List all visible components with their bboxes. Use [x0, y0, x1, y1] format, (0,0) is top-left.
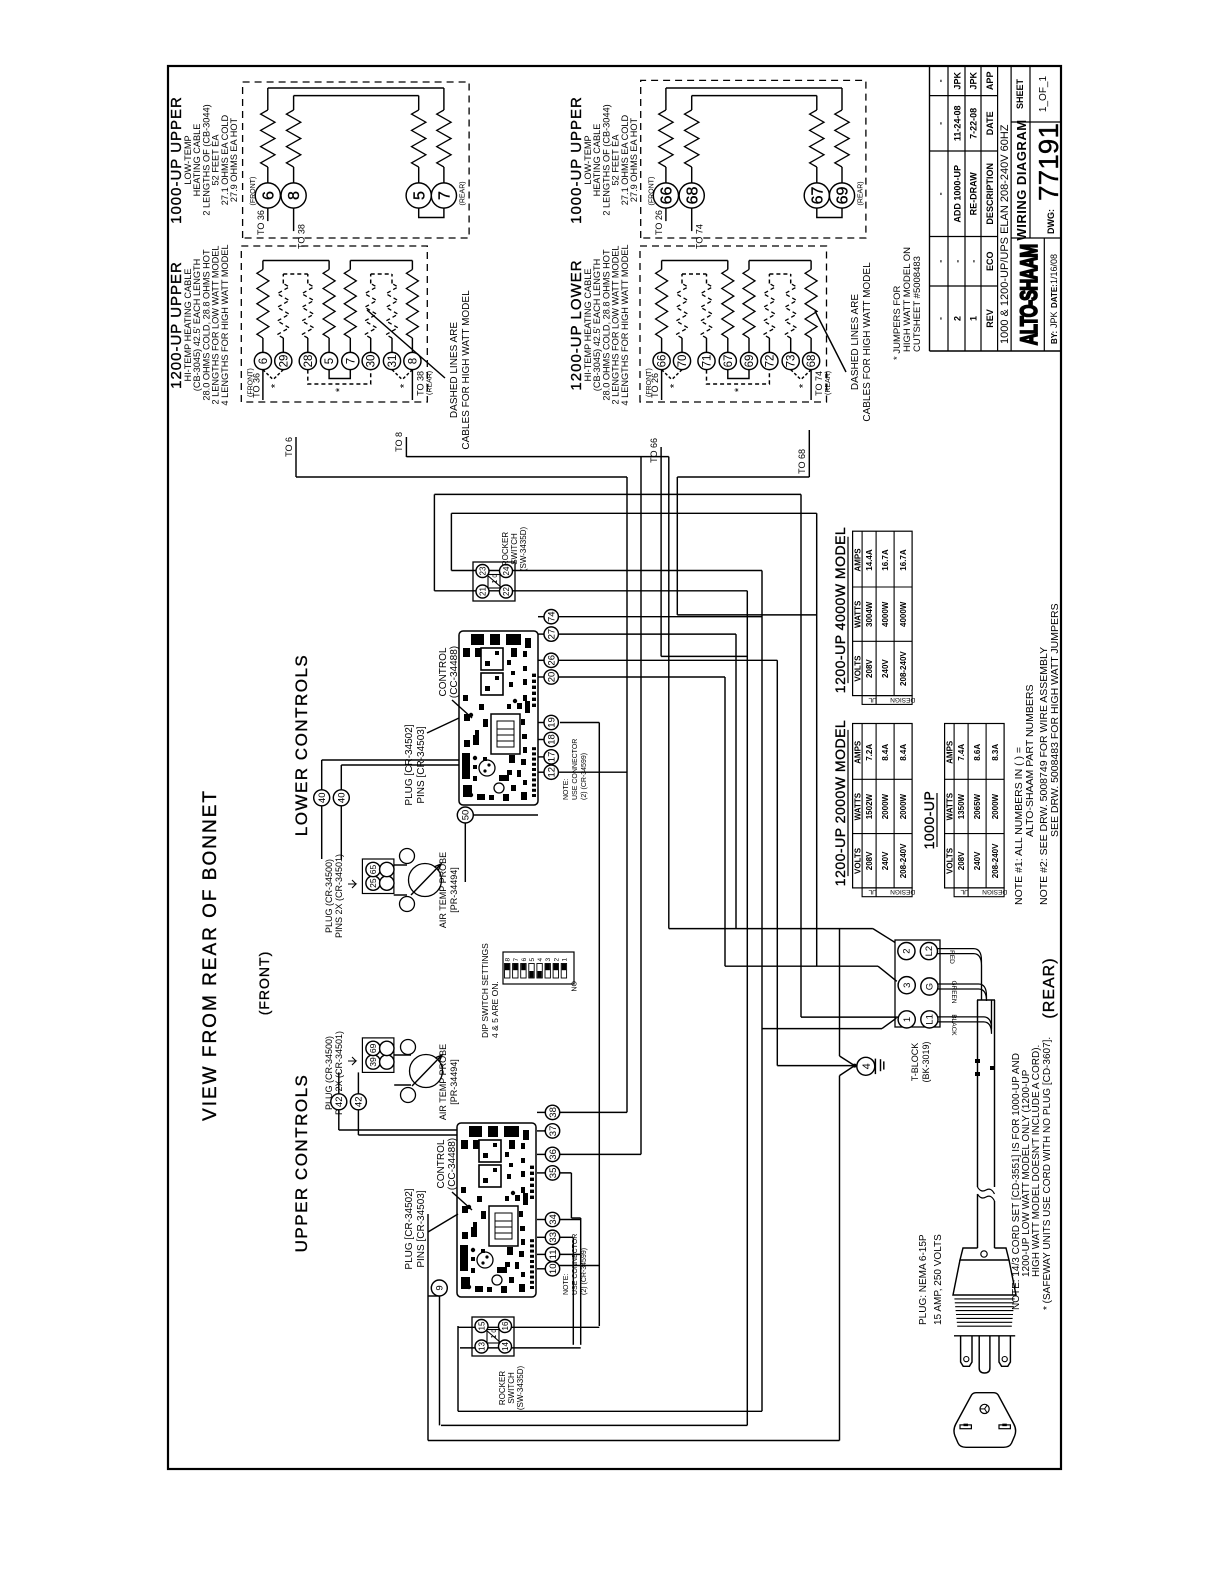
svg-text:WIRING DIAGRAM: WIRING DIAGRAM	[1014, 119, 1029, 240]
svg-text:208-240V: 208-240V	[899, 651, 908, 686]
svg-text:1: 1	[969, 316, 979, 321]
svg-text:5: 5	[529, 958, 536, 962]
svg-text:AMPS: AMPS	[853, 548, 862, 572]
svg-text:22: 22	[502, 587, 511, 596]
svg-text:240V: 240V	[973, 851, 982, 870]
svg-text:(REAR): (REAR)	[858, 181, 865, 205]
svg-text:8.3A: 8.3A	[991, 744, 1000, 761]
svg-text:2: 2	[553, 958, 560, 962]
svg-text:CONTROL: CONTROL	[436, 1139, 447, 1188]
svg-text:4000W: 4000W	[899, 601, 908, 627]
svg-text:4 LENGTHS FOR HIGH WATT MODEL: 4 LENGTHS FOR HIGH WATT MODEL	[220, 244, 230, 405]
svg-text:16: 16	[501, 1321, 510, 1330]
svg-text:TO 68: TO 68	[797, 449, 807, 474]
svg-text:67: 67	[723, 355, 735, 368]
svg-text:2000W: 2000W	[899, 793, 908, 819]
svg-text:T-BLOCK: T-BLOCK	[910, 1043, 920, 1082]
svg-text:JPK: JPK	[1049, 311, 1059, 328]
svg-text:68: 68	[806, 355, 818, 368]
svg-text:SHEET: SHEET	[1015, 78, 1025, 109]
svg-text:-: -	[936, 122, 946, 125]
svg-text:(FRONT): (FRONT)	[646, 368, 653, 397]
svg-text:*: *	[270, 383, 282, 388]
svg-text:3: 3	[545, 958, 552, 962]
svg-text:ROCKER: ROCKER	[501, 532, 510, 566]
svg-text:70: 70	[677, 355, 689, 368]
svg-text:31: 31	[387, 355, 399, 368]
svg-text:CONTROL: CONTROL	[438, 647, 449, 696]
svg-text:* (SAFEWAY UNITS USE CORD WITH: * (SAFEWAY UNITS USE CORD WITH NO PLUG […	[1042, 1037, 1053, 1310]
svg-text:*: *	[733, 387, 745, 392]
svg-text:USE CONNECTOR: USE CONNECTOR	[572, 739, 579, 800]
svg-text:17: 17	[547, 752, 558, 763]
svg-text:208-240V: 208-240V	[899, 843, 908, 878]
svg-text:TO 26: TO 26	[654, 210, 664, 235]
svg-text:240V: 240V	[881, 851, 890, 870]
svg-text:DESCRIPTION: DESCRIPTION	[985, 163, 995, 225]
svg-text:21: 21	[478, 587, 487, 596]
svg-text:68: 68	[684, 187, 701, 205]
svg-text:13: 13	[477, 1342, 486, 1351]
svg-text:2065W: 2065W	[973, 793, 982, 819]
svg-text:PLUG [CR-34502]: PLUG [CR-34502]	[404, 724, 415, 805]
svg-text:7: 7	[513, 958, 520, 962]
svg-text:8: 8	[407, 358, 419, 364]
svg-text:CABLES FOR HIGH WATT MODEL: CABLES FOR HIGH WATT MODEL	[461, 290, 472, 450]
svg-text:(FRONT): (FRONT)	[648, 177, 655, 206]
svg-text:20: 20	[547, 672, 558, 683]
svg-text:2000W: 2000W	[991, 793, 1000, 819]
svg-text:VIEW FROM REAR OF BONNET: VIEW FROM REAR OF BONNET	[200, 789, 221, 1121]
svg-text:40: 40	[317, 793, 328, 804]
svg-text:14: 14	[501, 1342, 510, 1351]
svg-text:[PR-34494]: [PR-34494]	[449, 1059, 459, 1105]
svg-text:G: G	[925, 983, 936, 990]
svg-text:208-240V: 208-240V	[991, 843, 1000, 878]
svg-text:(REAR): (REAR)	[825, 371, 832, 395]
svg-text:DESIGN: DESIGN	[982, 888, 1007, 895]
svg-text:TO 74: TO 74	[695, 224, 705, 249]
svg-text:TO 66: TO 66	[649, 438, 659, 463]
svg-text:6: 6	[521, 958, 528, 962]
svg-text:L1: L1	[925, 1014, 936, 1025]
svg-text:(FRONT): (FRONT)	[256, 951, 272, 1016]
svg-text:5: 5	[411, 191, 428, 200]
svg-text:DESIGN: DESIGN	[890, 696, 915, 703]
svg-text:DATE:: DATE:	[1050, 284, 1059, 308]
svg-text:PINS [CR-34503]: PINS [CR-34503]	[416, 726, 427, 803]
svg-text:14.4A: 14.4A	[865, 549, 874, 571]
svg-text:SWITCH: SWITCH	[510, 533, 519, 565]
svg-text:66: 66	[657, 355, 669, 368]
svg-text:UL: UL	[868, 696, 877, 703]
svg-text:208V: 208V	[865, 851, 874, 870]
svg-text:77191: 77191	[1033, 123, 1064, 201]
svg-text:(CC-34488): (CC-34488)	[447, 1138, 458, 1190]
svg-text:PLUG: NEMA 6-15P: PLUG: NEMA 6-15P	[918, 1234, 929, 1325]
svg-text:71: 71	[702, 355, 714, 368]
svg-text:(FRONT): (FRONT)	[250, 177, 257, 206]
svg-text:4: 4	[537, 958, 544, 962]
svg-text:30: 30	[366, 355, 378, 368]
svg-text:27.9 OHMS EA HOT: 27.9 OHMS EA HOT	[229, 117, 239, 202]
svg-text:UPPER CONTROLS: UPPER CONTROLS	[292, 1074, 311, 1253]
svg-text:72: 72	[764, 355, 776, 368]
svg-text:PLUG [CR-34502]: PLUG [CR-34502]	[404, 1188, 415, 1269]
svg-text:ECO: ECO	[985, 251, 995, 271]
svg-text:SWITCH: SWITCH	[507, 1372, 516, 1404]
svg-text:NOTE:: NOTE:	[563, 1274, 570, 1295]
svg-text:BLACK: BLACK	[950, 1014, 957, 1036]
svg-text:208V: 208V	[957, 851, 966, 870]
svg-text:-: -	[936, 260, 946, 263]
svg-text:*: *	[668, 383, 680, 388]
svg-text:240V: 240V	[881, 659, 890, 678]
svg-text:ROCKER: ROCKER	[498, 1371, 507, 1405]
svg-text:73: 73	[786, 355, 798, 368]
svg-text:8.6A: 8.6A	[973, 744, 982, 761]
svg-text:8: 8	[505, 958, 512, 962]
svg-text:TO 8: TO 8	[394, 432, 404, 452]
svg-text:1502W: 1502W	[865, 793, 874, 819]
svg-text:8: 8	[286, 191, 303, 200]
svg-text:28: 28	[303, 355, 315, 368]
svg-text:TO 38: TO 38	[415, 371, 425, 396]
svg-text:NOTE:: NOTE:	[563, 779, 570, 800]
svg-text:42: 42	[334, 1097, 345, 1108]
svg-text:24: 24	[502, 566, 511, 575]
svg-text:*: *	[334, 387, 346, 392]
svg-text:74: 74	[547, 611, 558, 622]
svg-text:1000-UP: 1000-UP	[921, 791, 937, 850]
svg-text:66: 66	[659, 187, 676, 205]
svg-text:8.4A: 8.4A	[881, 744, 890, 761]
svg-text:AIR TEMP PROBE: AIR TEMP PROBE	[438, 852, 448, 928]
svg-text:6: 6	[260, 191, 277, 200]
svg-text:3: 3	[902, 983, 913, 988]
svg-text:TO 6: TO 6	[284, 437, 294, 457]
svg-text:27: 27	[547, 629, 558, 640]
svg-text:1200-UP 2000W MODEL: 1200-UP 2000W MODEL	[832, 720, 848, 886]
svg-text:1350W: 1350W	[957, 793, 966, 819]
svg-text:DWG:: DWG:	[1046, 209, 1056, 234]
svg-text:(SW-3435D): (SW-3435D)	[519, 527, 528, 572]
svg-text:18: 18	[547, 734, 558, 745]
svg-text:11: 11	[548, 1249, 559, 1259]
svg-text:7.2A: 7.2A	[865, 744, 874, 761]
svg-text:36: 36	[548, 1149, 559, 1160]
svg-text:26: 26	[547, 655, 558, 666]
svg-text:SEE DRW. 5008483 FOR HIGH WATT: SEE DRW. 5008483 FOR HIGH WATT JUMPERS	[1049, 603, 1061, 837]
svg-text:-: -	[936, 192, 946, 195]
svg-text:1_OF_1: 1_OF_1	[1038, 75, 1049, 112]
svg-text:11-24-08: 11-24-08	[953, 106, 963, 142]
svg-text:(BK-3019): (BK-3019)	[921, 1041, 931, 1082]
svg-text:38: 38	[548, 1107, 559, 1118]
svg-text:USE CONNECTOR: USE CONNECTOR	[572, 1234, 579, 1295]
svg-text:25: 25	[368, 878, 378, 888]
svg-text:16.7A: 16.7A	[881, 549, 890, 571]
svg-text:39: 39	[368, 1057, 378, 1067]
svg-text:VOLTS: VOLTS	[945, 847, 954, 874]
svg-text:AMPS: AMPS	[945, 740, 954, 764]
svg-text:VOLTS: VOLTS	[853, 847, 862, 874]
svg-text:(CC-34488): (CC-34488)	[449, 646, 460, 698]
svg-text:65: 65	[368, 865, 378, 875]
svg-text:*: *	[797, 383, 809, 388]
svg-text:UL: UL	[960, 888, 969, 895]
svg-text:ADD 1000-UP: ADD 1000-UP	[953, 165, 963, 223]
svg-text:TO 38: TO 38	[297, 224, 307, 249]
svg-text:7: 7	[437, 191, 454, 200]
svg-text:29: 29	[278, 355, 290, 368]
svg-text:DATE: DATE	[985, 111, 995, 135]
svg-text:ALTO-SHAAM PART NUMBERS: ALTO-SHAAM PART NUMBERS	[1024, 685, 1036, 837]
svg-text:-: -	[953, 260, 963, 263]
svg-text:JPK: JPK	[969, 72, 979, 90]
svg-text:1000 & 1200-UP/UPS ELAN 208-24: 1000 & 1200-UP/UPS ELAN 208-240V 60HZ	[999, 124, 1011, 344]
svg-text:AIR TEMP PROBE: AIR TEMP PROBE	[438, 1044, 448, 1120]
svg-text:4 & 5 ARE ON.: 4 & 5 ARE ON.	[490, 981, 500, 1038]
svg-text:2: 2	[953, 316, 963, 321]
svg-text:42: 42	[354, 1097, 365, 1108]
svg-text:2: 2	[902, 948, 913, 953]
svg-text:*: *	[399, 383, 411, 388]
svg-text:(FRONT): (FRONT)	[247, 368, 254, 397]
svg-text:PLUG (CR-34500): PLUG (CR-34500)	[324, 859, 334, 933]
svg-text:DESIGN: DESIGN	[890, 888, 915, 895]
svg-text:JPK: JPK	[953, 72, 963, 90]
svg-text:40: 40	[337, 793, 348, 804]
svg-text:TO 36: TO 36	[256, 210, 266, 235]
svg-text:3004W: 3004W	[865, 601, 874, 627]
svg-text:2000W: 2000W	[881, 793, 890, 819]
svg-text:ON: ON	[570, 981, 577, 992]
svg-text:CABLES FOR HIGH WATT MODEL: CABLES FOR HIGH WATT MODEL	[862, 262, 873, 422]
svg-text:69: 69	[744, 355, 756, 368]
svg-text:(REAR): (REAR)	[460, 181, 467, 205]
svg-text:PINS [CR-34503]: PINS [CR-34503]	[416, 1190, 427, 1267]
svg-text:4 LENGTHS FOR HIGH WATT MODEL: 4 LENGTHS FOR HIGH WATT MODEL	[620, 244, 630, 405]
svg-text:33: 33	[548, 1232, 559, 1243]
svg-text:-: -	[969, 260, 979, 263]
svg-text:APP: APP	[985, 72, 995, 91]
svg-text:67: 67	[809, 187, 826, 205]
svg-text:7-22-08: 7-22-08	[969, 108, 979, 139]
svg-text:5: 5	[324, 358, 336, 364]
svg-text:-: -	[936, 317, 946, 320]
svg-text:50: 50	[461, 810, 472, 821]
svg-text:(REAR): (REAR)	[1041, 957, 1058, 1018]
svg-text:15: 15	[477, 1321, 486, 1330]
svg-text:9: 9	[435, 1285, 446, 1290]
svg-text:1/16/08: 1/16/08	[1049, 254, 1059, 284]
svg-text:6: 6	[258, 358, 270, 364]
svg-text:RE-DRAW: RE-DRAW	[969, 172, 979, 216]
svg-text:[PR-34494]: [PR-34494]	[449, 867, 459, 913]
svg-text:16.7A: 16.7A	[899, 549, 908, 571]
svg-text:L2: L2	[924, 946, 935, 957]
svg-text:27.9 OHMS EA HOT: 27.9 OHMS EA HOT	[629, 117, 639, 202]
svg-text:WATTS: WATTS	[945, 792, 954, 820]
svg-text:(REAR): (REAR)	[426, 371, 433, 395]
svg-text:RED: RED	[948, 950, 955, 964]
svg-text:1200-UP 4000W MODEL: 1200-UP 4000W MODEL	[832, 527, 848, 693]
svg-text:TO 74: TO 74	[814, 371, 824, 396]
svg-text:DASHED LINES ARE: DASHED LINES ARE	[449, 322, 460, 418]
svg-text:AMPS: AMPS	[853, 740, 862, 764]
svg-text:PINS 2X (CR-34501): PINS 2X (CR-34501)	[334, 854, 344, 938]
svg-text:REV: REV	[985, 309, 995, 328]
svg-text:CUTSHEET #5008483: CUTSHEET #5008483	[912, 256, 923, 352]
svg-text:4000W: 4000W	[881, 601, 890, 627]
svg-text:1: 1	[561, 958, 568, 962]
svg-text:DIP SWITCH SETTINGS: DIP SWITCH SETTINGS	[480, 943, 490, 1038]
svg-text:HIGH WATT MODEL DOESN'T INCLUD: HIGH WATT MODEL DOESN'T INCLUDE A CORD).	[1031, 1045, 1042, 1277]
svg-text:-: -	[936, 79, 946, 82]
svg-text:DASHED LINES ARE: DASHED LINES ARE	[850, 294, 861, 390]
svg-text:7.4A: 7.4A	[957, 744, 966, 761]
svg-text:10: 10	[548, 1264, 559, 1275]
svg-text:23: 23	[478, 566, 487, 575]
svg-text:4: 4	[861, 1063, 873, 1069]
svg-text:208V: 208V	[865, 659, 874, 678]
svg-text:(2) (CR-34599): (2) (CR-34599)	[581, 1248, 588, 1295]
svg-text:1: 1	[902, 1017, 913, 1022]
svg-text:19: 19	[547, 717, 558, 728]
svg-text:69: 69	[368, 1043, 378, 1053]
svg-text:15 AMP, 250 VOLTS: 15 AMP, 250 VOLTS	[933, 1234, 944, 1325]
svg-text:LOWER CONTROLS: LOWER CONTROLS	[292, 654, 311, 837]
svg-text:35: 35	[548, 1168, 559, 1179]
svg-text:WATTS: WATTS	[853, 600, 862, 628]
svg-text:WATTS: WATTS	[853, 792, 862, 820]
svg-text:(SW-3435D): (SW-3435D)	[516, 1366, 525, 1411]
svg-text:34: 34	[548, 1214, 559, 1225]
svg-text:VOLTS: VOLTS	[853, 655, 862, 682]
svg-text:BY:: BY:	[1050, 331, 1059, 344]
svg-text:UL: UL	[868, 888, 877, 895]
svg-text:7: 7	[345, 358, 357, 364]
svg-text:8.4A: 8.4A	[899, 744, 908, 761]
svg-text:69: 69	[835, 187, 852, 205]
svg-text:12: 12	[547, 767, 558, 778]
svg-text:37: 37	[548, 1126, 559, 1137]
svg-text:(2) (CR-34599): (2) (CR-34599)	[581, 753, 588, 800]
svg-text:ALTO-SHAAM: ALTO-SHAAM	[1016, 245, 1043, 346]
